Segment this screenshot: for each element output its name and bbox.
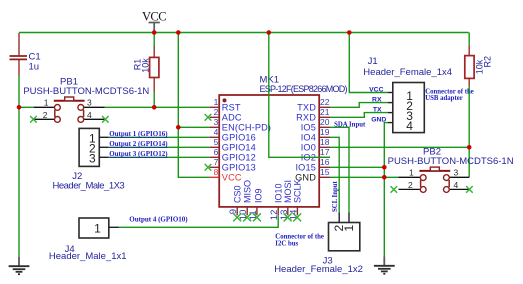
svg-text:MISO: MISO	[242, 180, 252, 203]
svg-text:USB adapter: USB adapter	[425, 95, 463, 102]
wire J4 pin1 to IO10 pin12	[119, 215, 278, 227]
svg-text:TXD: TXD	[297, 102, 316, 112]
connector J4 Header_Male_1x1 box	[79, 218, 109, 238]
svg-text:Header_Female_1x2: Header_Female_1x2	[274, 264, 363, 275]
svg-text:16: 16	[320, 157, 330, 167]
svg-text:3: 3	[214, 117, 219, 127]
svg-text:5: 5	[214, 137, 219, 147]
connector J3 Header_Female_1x2 box	[329, 223, 360, 251]
svg-text:21: 21	[320, 107, 330, 117]
junction node VCC/EN vertical	[176, 30, 181, 35]
J1 pin name annotations	[369, 86, 386, 123]
junction node R2/IO0/PB2	[467, 145, 472, 150]
junction node VCC/R1	[152, 30, 157, 35]
svg-text:SDA Input: SDA Input	[334, 122, 366, 129]
no-connect X MK1 pin2	[205, 114, 212, 121]
junction node GND/PB2 pin1	[382, 175, 387, 180]
svg-text:GPIO14: GPIO14	[222, 142, 256, 152]
svg-text:4: 4	[406, 119, 413, 133]
svg-text:3: 3	[89, 151, 96, 165]
junction node C1/PB1 pin1	[17, 105, 22, 110]
svg-text:PUSH-BUTTON-MCDTS6-1N: PUSH-BUTTON-MCDTS6-1N	[23, 86, 149, 97]
svg-text:7: 7	[214, 157, 219, 167]
svg-text:10k: 10k	[140, 58, 150, 73]
MK1 left pin numbers	[214, 97, 219, 177]
MK1 right pin numbers	[320, 97, 330, 177]
svg-text:GPIO16: GPIO16	[222, 132, 256, 142]
junction node VCC/J1 vertical	[347, 30, 352, 35]
wire J2 pin1 to GPIO16	[109, 136, 210, 138]
wire IO0 to R2 and PB2	[330, 146, 469, 148]
wire VCC top rail	[19, 32, 469, 34]
junction node IO15/GND net	[382, 165, 387, 170]
svg-text:IO10: IO10	[273, 183, 283, 203]
ground symbol left	[9, 257, 30, 274]
ground symbol right	[374, 257, 395, 274]
no-connect X MK1 pin11	[253, 213, 261, 221]
wire EN(CH-PD) branch	[178, 126, 209, 128]
svg-text:2: 2	[214, 107, 219, 117]
no-connect X MK1 pin9	[233, 213, 241, 221]
svg-text:4: 4	[87, 110, 92, 120]
svg-text:Header_Male_1x1: Header_Male_1x1	[49, 251, 127, 262]
no-connect X MK1 pin7	[205, 164, 212, 171]
svg-text:18: 18	[320, 137, 330, 147]
svg-text:ESP-12F(ESP8266MOD): ESP-12F(ESP8266MOD)	[260, 84, 348, 94]
svg-text:RST: RST	[222, 102, 241, 112]
resistor R2	[468, 45, 470, 87]
wire GND pin15 to PB2 pin1	[330, 176, 399, 178]
no-connect X PB2 pin2	[391, 186, 398, 193]
VCC power symbol	[149, 23, 160, 33]
MK1 left pin names	[222, 102, 271, 182]
svg-text:RXD: RXD	[296, 112, 316, 122]
svg-text:GND: GND	[371, 117, 386, 124]
junction node VCC/IO2 vertical	[267, 30, 272, 35]
svg-text:3: 3	[454, 168, 459, 178]
wire VCC vertical to J1 pin1	[349, 33, 387, 93]
svg-text:1: 1	[214, 97, 219, 107]
svg-text:2: 2	[408, 180, 413, 190]
svg-text:GPIO13: GPIO13	[222, 162, 256, 172]
svg-text:10k: 10k	[474, 59, 484, 74]
svg-text:6: 6	[214, 147, 219, 157]
no-connect X PB1 pin4	[102, 116, 109, 123]
MK1 right pin stubs	[319, 107, 330, 177]
svg-text:3: 3	[87, 98, 92, 108]
resistor R1	[153, 46, 155, 92]
J1 pin stubs	[388, 93, 393, 123]
svg-text:Connector of the: Connector of the	[275, 233, 324, 240]
MK1 bottom pin stubs	[237, 207, 297, 215]
svg-text:1: 1	[409, 168, 414, 178]
svg-text:22: 22	[320, 97, 330, 107]
wire R2 top	[468, 33, 470, 46]
svg-text:20: 20	[320, 117, 330, 127]
J4 pin stub	[109, 226, 119, 228]
wire VCC vertical to EN and pin8	[178, 33, 209, 178]
J2 pin numbers	[89, 131, 96, 165]
push-button PB2	[399, 177, 470, 189]
svg-text:4: 4	[454, 180, 459, 190]
svg-text:2: 2	[43, 110, 48, 120]
wire IO5 SDA down to J3 pin1	[330, 127, 349, 212]
svg-text:SCL Input: SCL Input	[332, 180, 339, 212]
wire J1 pin4 GND down to ground	[384, 123, 387, 257]
svg-text:VCC: VCC	[142, 10, 166, 24]
connector J1 Header_Female_1x4 box	[393, 83, 425, 133]
svg-text:Output 1 (GPIO16): Output 1 (GPIO16)	[109, 130, 168, 138]
J3 pin numbers	[332, 225, 356, 232]
connector J2 Header_Male_1X3 box	[79, 128, 99, 166]
wire RXD to J1 pin3	[330, 113, 388, 118]
svg-text:15: 15	[320, 167, 330, 177]
wire left vertical C1 to PB1 to ground	[18, 76, 20, 257]
no-connect X PB2 pin4	[466, 186, 473, 193]
wire IO4 down to J3 pin2	[330, 137, 339, 212]
svg-text:4: 4	[214, 127, 219, 137]
wire IO15 to GND net	[330, 166, 385, 168]
svg-text:IO4: IO4	[301, 132, 316, 142]
svg-text:RX: RX	[372, 97, 382, 104]
svg-text:CS0: CS0	[232, 185, 242, 203]
svg-text:PUSH-BUTTON-MCDTS6-1N: PUSH-BUTTON-MCDTS6-1N	[388, 156, 514, 167]
wire PB1 pin1 to left rail	[19, 106, 34, 108]
svg-text:GPIO12: GPIO12	[222, 152, 256, 162]
MK1 right pin names	[295, 102, 316, 182]
wire PB1 pin3 to RST	[105, 106, 210, 108]
wire R1 top	[153, 33, 155, 47]
MK1 left pin stubs	[210, 107, 220, 177]
wire PB2 pin3 up to IO0 node	[468, 147, 470, 177]
svg-text:IO9: IO9	[253, 188, 263, 203]
svg-text:SCLK: SCLK	[293, 179, 303, 203]
wire VCC vertical to IO2 pull-up (over chip)	[269, 33, 330, 158]
svg-text:ADC: ADC	[222, 112, 242, 122]
J3 pin stubs	[339, 212, 349, 222]
svg-text:I2C bus: I2C bus	[275, 240, 298, 247]
MK1 bottom pin names	[232, 179, 302, 203]
svg-text:1u: 1u	[29, 61, 40, 72]
J2 pin stubs	[99, 137, 108, 157]
svg-text:TX: TX	[373, 107, 382, 114]
svg-text:Header_Male_1X3: Header_Male_1X3	[53, 181, 125, 192]
wire J2 pin3 to GPIO12	[109, 156, 210, 158]
svg-text:EN(CH-PD): EN(CH-PD)	[222, 122, 271, 132]
svg-text:VCC: VCC	[222, 172, 242, 182]
wire TXD to J1 pin2	[330, 103, 388, 108]
svg-text:Output 4 (GPIO10): Output 4 (GPIO10)	[129, 216, 188, 224]
svg-text:1: 1	[342, 225, 356, 232]
svg-text:IO5: IO5	[301, 122, 316, 132]
wire J2 pin2 to GPIO14	[109, 146, 210, 148]
svg-text:1: 1	[44, 98, 49, 108]
MK1 bottom pin numbers	[228, 209, 299, 220]
module U MK1 ESP-12F body	[219, 95, 319, 207]
svg-text:19: 19	[320, 127, 330, 137]
svg-text:IO0: IO0	[301, 142, 316, 152]
junction node R1/RST	[152, 105, 157, 110]
no-connect X MK1 pin13	[284, 213, 292, 221]
wire R2 bottom to IO0 node	[468, 87, 470, 148]
svg-text:8: 8	[214, 167, 219, 177]
no-connect X MK1 pin14	[293, 213, 301, 221]
no-connect X PB1 pin2	[30, 116, 37, 123]
svg-text:MOSI: MOSI	[283, 180, 293, 203]
junction node EN branch	[176, 125, 181, 130]
svg-text:IO15: IO15	[295, 162, 316, 172]
svg-text:VCC: VCC	[369, 86, 383, 93]
J1 pin numbers	[406, 89, 413, 133]
svg-text:17: 17	[320, 147, 330, 157]
svg-text:Output 3 (GPIO12): Output 3 (GPIO12)	[109, 150, 168, 158]
svg-text:1: 1	[94, 221, 101, 235]
svg-text:Output 2 (GPIO14): Output 2 (GPIO14)	[109, 140, 168, 148]
pin1 marker dot	[223, 98, 227, 102]
push-button PB1	[34, 107, 105, 119]
wire R1 bottom	[153, 92, 155, 107]
capacitor C1	[10, 33, 28, 76]
svg-text:J1: J1	[368, 56, 378, 67]
svg-text:Header_Female_1x4: Header_Female_1x4	[363, 67, 452, 78]
no-connect X MK1 pin10	[243, 213, 251, 221]
